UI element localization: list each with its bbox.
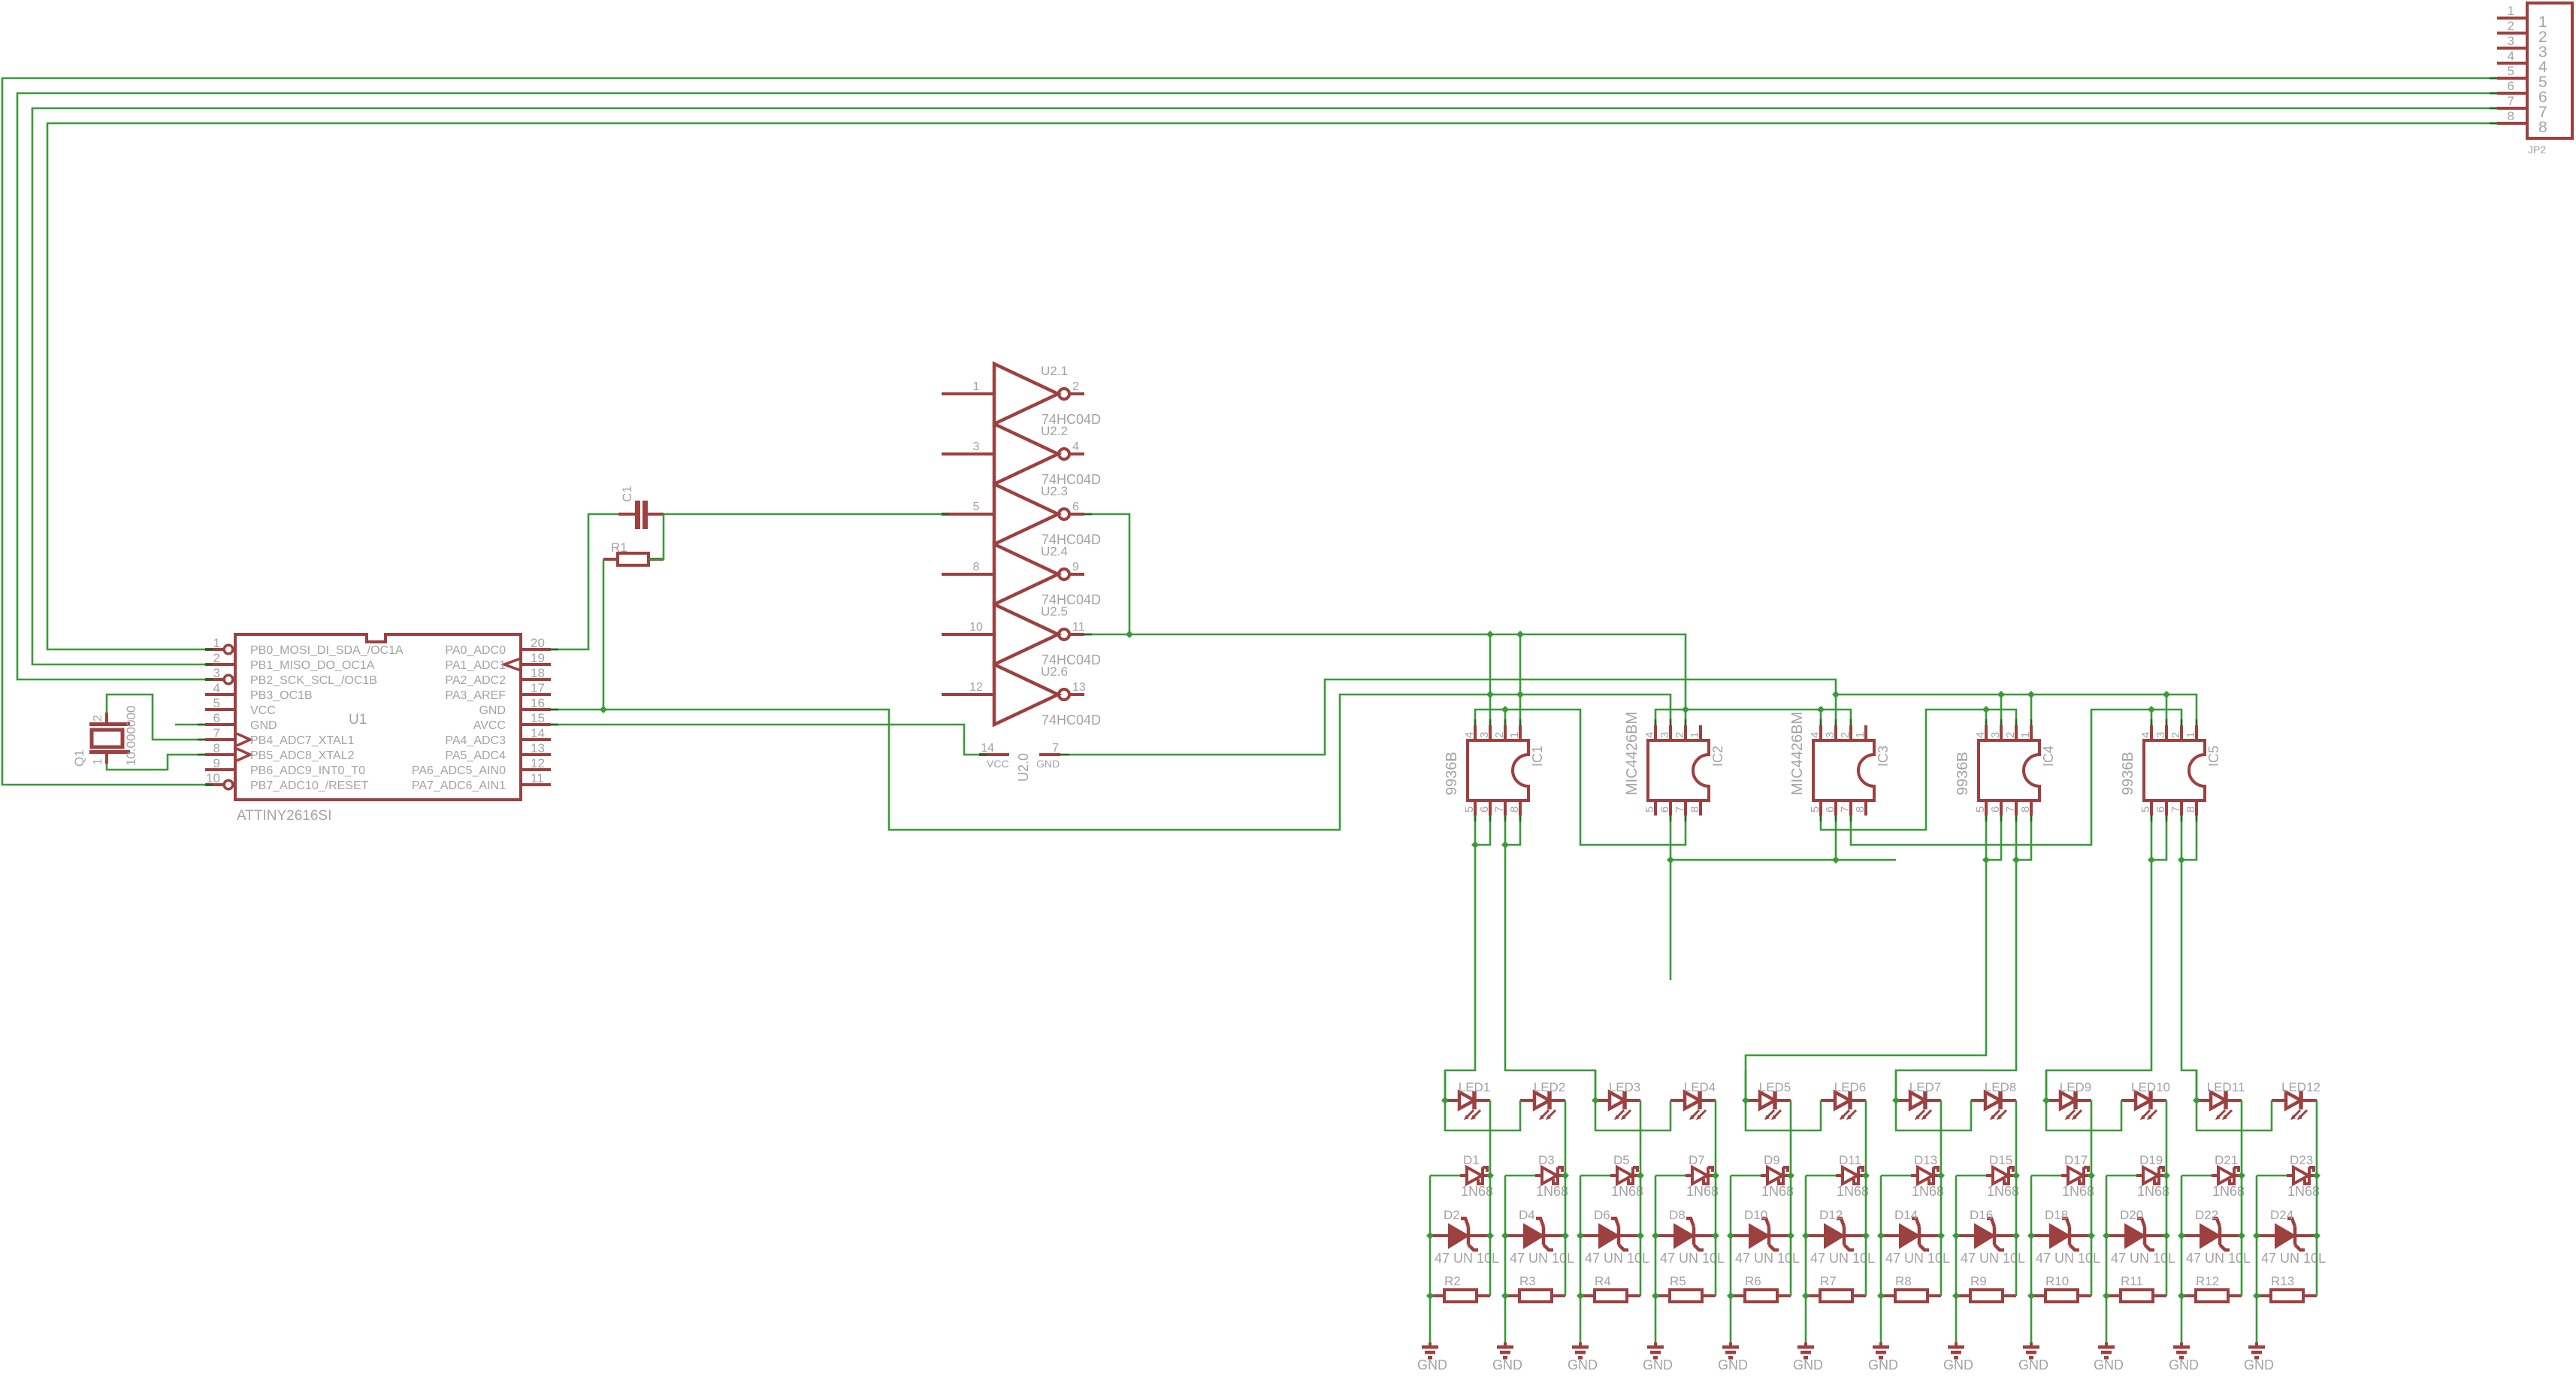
svg-text:D21: D21 <box>2215 1153 2238 1167</box>
U2.2 name label <box>1041 424 1068 438</box>
IC5 pin 3 <box>2154 725 2167 740</box>
diode D18 <box>2031 1218 2091 1250</box>
junction 924 at 2883 <box>2163 691 2170 698</box>
svg-text:GND: GND <box>2018 1357 2048 1372</box>
GND label channel 11 <box>2169 1357 2199 1372</box>
svg-text:MIC4426BM: MIC4426BM <box>1789 712 1806 795</box>
svg-text:D11: D11 <box>1839 1153 1861 1167</box>
U2.5 name label <box>1041 604 1068 619</box>
ground GND channel 1 <box>1422 1342 1438 1360</box>
resistor R11 <box>2106 1290 2166 1302</box>
diode D11 <box>1836 1167 1866 1184</box>
D15 name label <box>1989 1153 2012 1167</box>
svg-text:2: 2 <box>2508 19 2514 33</box>
svg-text:15: 15 <box>531 711 545 725</box>
svg-text:PA7_ADC6_AIN1: PA7_ADC6_AIN1 <box>412 779 506 792</box>
riser IC1 pin3/844 <box>1489 634 1492 725</box>
junction D22 cathode <box>2238 1232 2245 1239</box>
svg-text:PB2_SCK_SCL_/OC1B: PB2_SCK_SCL_/OC1B <box>250 674 377 687</box>
wire LED9 cathode riser <box>2091 1100 2093 1176</box>
wire IC4.8 jog <box>2016 816 2031 860</box>
U2.4 value label <box>1042 592 1101 607</box>
resistor R9 <box>1956 1290 2016 1302</box>
junction D13 cathode <box>1937 1172 1945 1179</box>
svg-text:5: 5 <box>1974 807 1987 813</box>
wire channel 2 right rail <box>1565 1176 1567 1296</box>
inverter U2.1 <box>942 364 1084 424</box>
ic IC3 body <box>1813 740 1874 800</box>
diode D17 <box>2061 1167 2091 1184</box>
U2.1 name label <box>1041 364 1068 378</box>
wire channel 12 right rail <box>2316 1176 2318 1296</box>
ground GND channel 8 <box>1948 1342 1964 1360</box>
wire D5 row <box>1580 1175 1610 1177</box>
U1 pin 2 (PB1_MISO_DO_OC1A) <box>205 651 375 672</box>
IC4 pin 2 <box>2004 725 2017 740</box>
svg-text:GND: GND <box>1943 1357 1973 1372</box>
JP2 pin 5 <box>2497 64 2547 91</box>
svg-text:1N68: 1N68 <box>1837 1184 1869 1199</box>
svg-text:5: 5 <box>2139 807 2152 813</box>
svg-text:1: 1 <box>92 758 104 765</box>
svg-text:R9: R9 <box>1970 1274 1987 1288</box>
wire channel 4 right rail <box>1715 1176 1717 1296</box>
IC2 name label <box>1710 746 1725 767</box>
U1 pin 16 (GND) <box>479 696 551 717</box>
D20 value label <box>2111 1251 2175 1266</box>
GND label channel 1 <box>1417 1357 1447 1372</box>
junction R8 left <box>1877 1292 1885 1300</box>
wire channel 8 left rail <box>1955 1176 1958 1342</box>
diode D3 <box>1535 1167 1565 1184</box>
GND label channel 2 <box>1492 1357 1522 1372</box>
svg-text:8: 8 <box>2538 119 2547 136</box>
D13 value label <box>1912 1184 1944 1199</box>
ground GND channel 10 <box>2098 1342 2115 1360</box>
junction LED5 anode <box>1742 1097 1749 1104</box>
riser IC5 pin4 <box>2151 710 2153 725</box>
svg-text:9936B: 9936B <box>1955 752 1971 795</box>
resistor R7 <box>1806 1290 1866 1302</box>
svg-text:U2.1: U2.1 <box>1041 364 1068 378</box>
svg-text:1N68: 1N68 <box>1686 1184 1719 1199</box>
svg-text:19: 19 <box>531 651 545 665</box>
GND label channel 7 <box>1868 1357 1898 1372</box>
svg-text:LED11: LED11 <box>2207 1080 2245 1094</box>
ground GND channel 9 <box>2023 1342 2039 1360</box>
IC5 pin 4 <box>2139 725 2152 740</box>
D9 value label <box>1761 1184 1794 1199</box>
wire LED5 anode loop <box>1746 1070 1821 1130</box>
inverter U2.5 <box>942 604 1085 664</box>
junction D7 cathode <box>1712 1172 1719 1179</box>
svg-text:MIC4426BM: MIC4426BM <box>1624 712 1640 795</box>
wire U1 PA0 to C1 <box>551 514 618 649</box>
ic IC2 body <box>1648 740 1709 800</box>
svg-text:D5: D5 <box>1613 1153 1630 1167</box>
junction D5 cathode <box>1637 1172 1644 1179</box>
U1 pin 14 (PA4_ADC3) <box>445 726 551 747</box>
svg-text:IC5: IC5 <box>2206 746 2221 767</box>
JP2 pin 8 <box>2497 109 2547 136</box>
D11 value label <box>1837 1184 1869 1199</box>
D6 value label <box>1585 1251 1649 1266</box>
junction D24 cathode <box>2313 1232 2321 1239</box>
U1 pin 15 (AVCC) <box>473 711 551 732</box>
GND label channel 4 <box>1643 1357 1673 1372</box>
wire channel 3 right rail <box>1640 1176 1642 1296</box>
U1 pin 11 (PA7_ADC6_AIN1) <box>412 771 551 792</box>
diode D23 <box>2287 1167 2317 1184</box>
wire D11 row <box>1806 1175 1836 1177</box>
wire D3 row <box>1505 1175 1535 1177</box>
wire channel 7 right rail <box>1940 1176 1943 1296</box>
R11 name label <box>2121 1274 2143 1288</box>
resistor R8 <box>1881 1290 1941 1302</box>
diode D22 <box>2181 1218 2242 1250</box>
junction D10 anode <box>1727 1232 1734 1239</box>
IC4 pin 1 <box>2019 725 2032 740</box>
svg-text:6: 6 <box>213 711 220 725</box>
svg-text:PA6_ADC5_AIN0: PA6_ADC5_AIN0 <box>412 764 506 777</box>
svg-text:D19: D19 <box>2139 1153 2163 1167</box>
diode D4 <box>1505 1218 1565 1250</box>
IC4 name label <box>2041 746 2056 767</box>
wire IC4.7 feed LED7 <box>1896 816 2016 1100</box>
U2.5 value label <box>1042 652 1101 667</box>
R4 name label <box>1595 1274 1611 1288</box>
junction 924 bus at 2443 <box>1832 691 1840 698</box>
IC1 pin 5 <box>1463 800 1476 816</box>
svg-text:PB6_ADC9_INT0_T0: PB6_ADC9_INT0_T0 <box>250 764 365 777</box>
R6 name label <box>1745 1274 1761 1288</box>
svg-text:GND: GND <box>1643 1357 1673 1372</box>
svg-text:R13: R13 <box>2271 1274 2294 1288</box>
svg-text:R11: R11 <box>2121 1274 2143 1288</box>
svg-text:1N68: 1N68 <box>2062 1184 2094 1199</box>
svg-text:6: 6 <box>1072 501 1079 513</box>
D18 name label <box>2045 1208 2068 1222</box>
svg-text:14: 14 <box>981 742 994 755</box>
wire channel 6 right rail <box>1865 1176 1867 1296</box>
svg-text:GND: GND <box>1417 1357 1447 1372</box>
svg-text:D9: D9 <box>1764 1153 1780 1167</box>
IC4 pin 6 <box>1989 800 2002 816</box>
R3 name label <box>1519 1274 1536 1288</box>
svg-text:D10: D10 <box>1744 1208 1767 1222</box>
GND label channel 10 <box>2094 1357 2124 1372</box>
svg-text:1N68: 1N68 <box>1611 1184 1643 1199</box>
U1 pin 12 (PA6_ADC5_AIN0) <box>412 756 551 777</box>
U2.2 value label <box>1042 472 1101 487</box>
diode D24 <box>2257 1218 2317 1250</box>
svg-text:D14: D14 <box>1894 1208 1918 1222</box>
D11 name label <box>1839 1153 1861 1167</box>
wire Q1.2 to U1 XTAL1 <box>107 695 205 740</box>
svg-text:7: 7 <box>213 726 220 740</box>
led LED3 <box>1595 1080 1640 1120</box>
svg-text:D17: D17 <box>2064 1153 2088 1167</box>
svg-text:PB7_ADC10_/RESET: PB7_ADC10_/RESET <box>250 779 369 792</box>
svg-text:VCC: VCC <box>250 704 276 717</box>
D16 name label <box>1970 1208 1993 1222</box>
junction D4 anode <box>1501 1232 1509 1239</box>
wire net JP2.6-U1.3 <box>17 93 2497 679</box>
svg-text:4: 4 <box>1463 732 1476 738</box>
svg-text:JP2: JP2 <box>2528 144 2546 156</box>
diode D21 <box>2212 1167 2242 1184</box>
Q1 pin 1 number <box>92 758 104 765</box>
riser IC4 pin3 <box>2000 695 2003 725</box>
ground GND channel 7 <box>1873 1342 1889 1360</box>
svg-text:10: 10 <box>969 621 983 634</box>
IC5 pin 5 <box>2139 800 2152 816</box>
svg-text:U2.0: U2.0 <box>1016 753 1031 782</box>
svg-text:GND: GND <box>1793 1357 1823 1372</box>
wire LED4 cathode riser <box>1715 1100 1717 1176</box>
svg-text:5: 5 <box>213 696 220 710</box>
svg-text:C1: C1 <box>620 486 634 502</box>
resistor R5 <box>1655 1290 1716 1302</box>
R12 name label <box>2196 1274 2219 1288</box>
junction LED11 anode <box>2193 1097 2200 1104</box>
svg-text:1N68: 1N68 <box>2212 1184 2245 1199</box>
wire D1 row <box>1430 1175 1460 1177</box>
svg-text:D12: D12 <box>1819 1208 1843 1222</box>
inverter U2.6 <box>942 664 1086 725</box>
svg-text:8: 8 <box>2019 807 2032 813</box>
svg-text:8: 8 <box>973 561 980 573</box>
svg-text:1: 1 <box>1689 732 1701 738</box>
R5 name label <box>1670 1274 1686 1288</box>
svg-text:ATTINY2616SI: ATTINY2616SI <box>237 808 331 824</box>
junction D4 cathode <box>1562 1232 1569 1239</box>
capacitor C1 <box>618 501 664 529</box>
wire IC4.5 feed LED5 <box>1746 816 1986 1100</box>
diode D15 <box>1986 1167 2016 1184</box>
D19 value label <box>2137 1184 2169 1199</box>
riser IC3 pin6 <box>1835 816 1837 860</box>
svg-text:LED10: LED10 <box>2131 1080 2170 1094</box>
svg-text:7: 7 <box>2004 807 2017 813</box>
wire LED2 cathode riser <box>1565 1100 1567 1176</box>
svg-text:5: 5 <box>1809 807 1822 813</box>
Q1 name label <box>72 749 86 767</box>
junction LED9 anode <box>2042 1097 2050 1104</box>
svg-text:2: 2 <box>1493 732 1506 738</box>
R1 name label <box>611 540 627 555</box>
wire LED3 anode loop <box>1595 1070 1670 1130</box>
wire channel 11 left rail <box>2181 1176 2183 1342</box>
ic U1 body <box>235 634 521 800</box>
wire AVCC U1.15 to U2 VCC <box>551 725 979 755</box>
ground GND channel 2 <box>1497 1342 1513 1360</box>
svg-text:D16: D16 <box>1970 1208 1993 1222</box>
wire channel 4 left rail <box>1655 1176 1657 1342</box>
ic U1 name label <box>349 712 367 728</box>
svg-text:AVCC: AVCC <box>473 719 506 732</box>
ground GND channel 12 <box>2248 1342 2265 1360</box>
ic IC5 body <box>2144 740 2205 800</box>
IC2 value label <box>1624 712 1640 795</box>
resistor R10 <box>2031 1290 2091 1302</box>
svg-text:9: 9 <box>1072 561 1079 573</box>
svg-text:GND: GND <box>1036 758 1060 770</box>
svg-text:9: 9 <box>213 756 220 770</box>
svg-text:D23: D23 <box>2290 1153 2313 1167</box>
junction D12 anode <box>1802 1232 1810 1239</box>
junction 1144 at 2643 <box>1982 856 1990 864</box>
svg-text:74HC04D: 74HC04D <box>1042 713 1101 728</box>
D9 name label <box>1764 1153 1780 1167</box>
svg-text:1: 1 <box>1854 732 1867 738</box>
R13 name label <box>2271 1274 2294 1288</box>
junction 844 at 1983 <box>1486 631 1494 638</box>
wire LED11 cathode riser <box>2241 1100 2243 1176</box>
GND label channel 6 <box>1793 1357 1823 1372</box>
svg-text:Q1: Q1 <box>72 749 86 767</box>
wire D21 row <box>2181 1175 2212 1177</box>
IC2 pin 8 <box>1689 800 1701 816</box>
IC1 pin 8 <box>1508 800 1521 816</box>
svg-text:6: 6 <box>1989 807 2002 813</box>
svg-text:PA4_ADC3: PA4_ADC3 <box>445 734 506 747</box>
junction D24 anode <box>2253 1232 2260 1239</box>
svg-text:D22: D22 <box>2195 1208 2218 1222</box>
wire D23 row <box>2257 1175 2287 1177</box>
wire LED7 cathode riser <box>1940 1100 1943 1176</box>
svg-text:1: 1 <box>213 636 220 650</box>
svg-text:D8: D8 <box>1669 1208 1686 1222</box>
svg-text:3: 3 <box>973 440 980 453</box>
D4 value label <box>1510 1251 1574 1266</box>
svg-text:1: 1 <box>2508 4 2514 18</box>
resistor R2 <box>1430 1290 1490 1302</box>
wire 924 bus east <box>1836 695 2197 725</box>
wire channel 5 right rail <box>1790 1176 1792 1296</box>
svg-text:R3: R3 <box>1519 1274 1536 1288</box>
svg-text:R5: R5 <box>1670 1274 1686 1288</box>
led LED10 <box>2121 1080 2170 1120</box>
led LED2 <box>1520 1080 1565 1120</box>
junction D6 anode <box>1577 1232 1584 1239</box>
svg-text:PB4_ADC7_XTAL1: PB4_ADC7_XTAL1 <box>250 734 355 747</box>
svg-text:R4: R4 <box>1595 1274 1611 1288</box>
junction GND/R1 <box>600 706 607 713</box>
junction 1124 at 2003 <box>1501 841 1509 849</box>
D20 name label <box>2120 1208 2143 1222</box>
svg-text:D7: D7 <box>1689 1153 1705 1167</box>
D13 name label <box>1914 1153 1937 1167</box>
svg-text:U1: U1 <box>349 712 367 728</box>
wire channel 7 left rail <box>1880 1176 1882 1342</box>
junction D1 cathode <box>1486 1172 1494 1179</box>
svg-text:3: 3 <box>1989 732 2002 738</box>
inverter U2.3 <box>942 484 1084 544</box>
riser IC5 pin3 <box>2166 695 2168 725</box>
junction D11 cathode <box>1862 1172 1870 1179</box>
svg-text:8: 8 <box>1689 807 1701 813</box>
D15 value label <box>1987 1184 2019 1199</box>
junction R2 left <box>1426 1292 1434 1300</box>
wire LED7 anode loop <box>1896 1070 1971 1130</box>
IC1 pin 3 <box>1478 725 1491 740</box>
D7 value label <box>1686 1184 1719 1199</box>
svg-text:D1: D1 <box>1463 1153 1480 1167</box>
junction D2 anode <box>1426 1232 1434 1239</box>
led LED12 <box>2272 1080 2321 1120</box>
wire LED10 cathode riser <box>2166 1100 2168 1176</box>
IC3 pin 2 <box>1839 725 1852 740</box>
wire channel 10 left rail <box>2106 1176 2108 1342</box>
wire LED3 cathode riser <box>1640 1100 1642 1176</box>
wire IC1.7 feed LED3 <box>1505 816 1595 1100</box>
led LED7 <box>1896 1080 1941 1120</box>
svg-text:R8: R8 <box>1895 1274 1912 1288</box>
junction D8 cathode <box>1712 1232 1719 1239</box>
svg-text:4: 4 <box>1643 732 1656 738</box>
svg-text:12: 12 <box>531 756 545 770</box>
junction 1144 at 2223 <box>1667 856 1674 864</box>
IC1 pin 1 <box>1508 725 1521 740</box>
wire D7 row <box>1655 1175 1686 1177</box>
svg-text:LED12: LED12 <box>2281 1080 2321 1094</box>
wire D19 row <box>2106 1175 2136 1177</box>
svg-text:17: 17 <box>531 681 545 695</box>
wire IC5.8 jog <box>2181 816 2197 860</box>
svg-text:2: 2 <box>2169 732 2182 738</box>
U1 pin 13 (PA5_ADC4) <box>445 741 551 762</box>
wire IC1.5 feed LED1 <box>1445 816 1475 1100</box>
wire dangling stub 2223 <box>1670 860 1672 980</box>
junction R4 left <box>1577 1292 1584 1300</box>
IC1 value label <box>1444 752 1460 795</box>
IC2 pin 7 <box>1673 800 1686 816</box>
wire D13 row <box>1881 1175 1911 1177</box>
wire IC1.6 jog <box>1475 816 1490 845</box>
svg-text:1: 1 <box>1508 732 1521 738</box>
D8 value label <box>1660 1251 1725 1266</box>
resistor R1 <box>603 553 664 565</box>
IC3 pin 4 <box>1809 725 1822 740</box>
U1 pin 8 (PB5_ADC8_XTAL2) <box>205 741 355 762</box>
U1 pin 1 (PB0_MOSI_DI_SDA_/OC1A) <box>205 636 404 657</box>
svg-text:LED5: LED5 <box>1759 1080 1791 1094</box>
junction D12 cathode <box>1862 1232 1870 1239</box>
wire net JP2.7-U1.2 <box>32 108 2497 664</box>
resistor R12 <box>2181 1290 2242 1302</box>
resistor R3 <box>1505 1290 1565 1302</box>
svg-text:3: 3 <box>213 666 220 680</box>
svg-text:IC3: IC3 <box>1876 746 1891 767</box>
IC2 pin 2 <box>1673 725 1686 740</box>
svg-text:6: 6 <box>1658 807 1671 813</box>
svg-text:4: 4 <box>1072 440 1079 453</box>
svg-text:1N68: 1N68 <box>2137 1184 2169 1199</box>
junction D19 cathode <box>2163 1172 2170 1179</box>
svg-text:13: 13 <box>531 741 545 755</box>
C1 name label <box>620 486 634 502</box>
JP2 pin 1 <box>2497 4 2547 31</box>
R9 name label <box>1970 1274 1987 1288</box>
wire U2.3 output net <box>1084 514 1129 634</box>
svg-text:11: 11 <box>531 771 544 785</box>
wire channel 6 left rail <box>1805 1176 1807 1342</box>
diode D12 <box>1806 1218 1866 1250</box>
svg-text:18: 18 <box>531 666 545 680</box>
D6 name label <box>1594 1208 1610 1222</box>
junction D18 anode <box>2027 1232 2035 1239</box>
